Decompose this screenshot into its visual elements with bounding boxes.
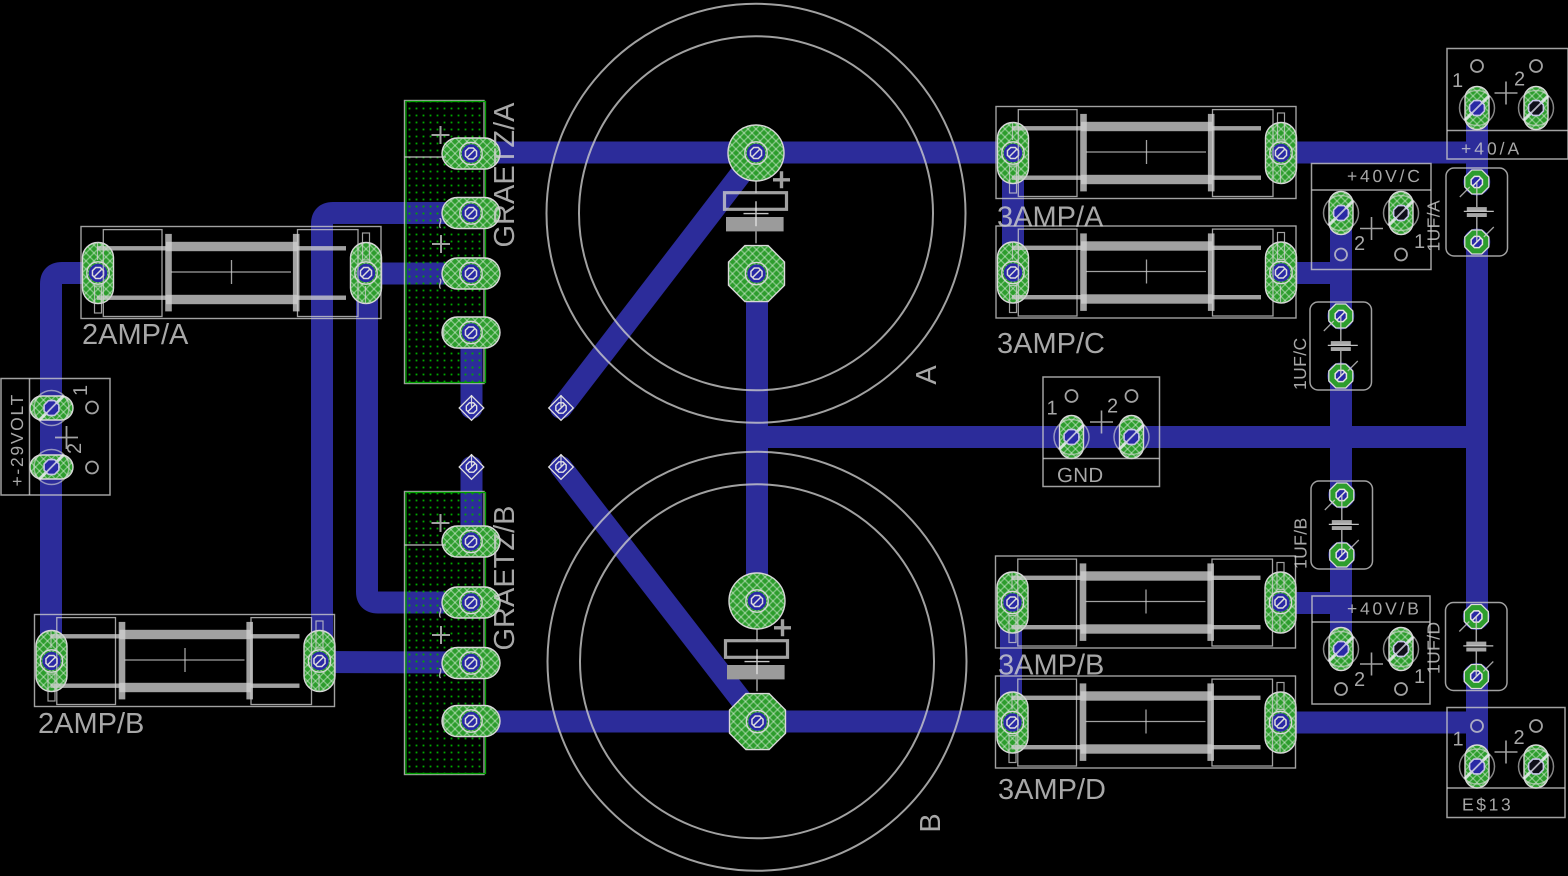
via V4 [549, 454, 574, 479]
svg-text:A: A [911, 365, 943, 385]
wire via V4 to capacitor B- diagonal [561, 467, 757, 721]
wire 1UF/C bottom to GND / 1UF/B top [1330, 376, 1352, 495]
svg-text:2AMP/B: 2AMP/B [38, 708, 144, 740]
connector E$13 [1447, 708, 1565, 818]
wire 1UF/B bottom to +40V/B pad2 [1330, 555, 1352, 649]
capacitor 1UF/A [1424, 168, 1508, 256]
bridge rectifier GRAETZ/B [405, 492, 522, 775]
wire GRAETZ/A pad1 via capacitor A+ to 3AMP/A-left [469, 142, 1013, 164]
wire 3AMP/B-left to 3AMP/D-left [1000, 603, 1022, 723]
svg-text:B: B [915, 813, 947, 832]
capacitor 1UF/D [1424, 603, 1508, 691]
wire GRAETZ/B pad4 via capacitor B- to 3AMP/D-left [469, 711, 1012, 733]
svg-text:1: 1 [1047, 398, 1058, 420]
wire 1UF/A bottom to GND / 1UF/D top [1466, 242, 1488, 617]
fuse 2AMP/B [35, 615, 336, 741]
wire 1UF/D bottom to E$13 pad1 [1466, 677, 1488, 767]
svg-text:1UF/A: 1UF/A [1424, 200, 1444, 252]
wire 3AMP/D-right to E$13 rail [1281, 712, 1477, 734]
svg-text:3AMP/C: 3AMP/C [997, 328, 1105, 360]
svg-text:+-29VOLT: +-29VOLT [7, 393, 27, 487]
electrolytic capacitor C-B [548, 452, 967, 871]
wire GND bus horizontal [757, 426, 1478, 448]
fuse 3AMP/D [996, 676, 1297, 806]
svg-text:2: 2 [1514, 727, 1525, 749]
via V1 [459, 395, 484, 420]
capacitor 1UF/B [1291, 481, 1373, 569]
svg-text:2: 2 [1354, 233, 1365, 255]
wire capacitor A- to capacitor B+ (GND) [746, 274, 768, 602]
svg-text:~: ~ [429, 606, 452, 618]
svg-text:2: 2 [1514, 69, 1525, 91]
wire +40/A pad1 to 1UF/A top [1466, 108, 1488, 182]
fuse 3AMP/C [996, 226, 1297, 360]
wire 3AMP/B-right stub [1281, 592, 1341, 614]
capacitor 1UF/C [1290, 302, 1372, 390]
electrolytic capacitor C-A [547, 4, 966, 423]
fuse 3AMP/B [996, 556, 1297, 682]
svg-text:2: 2 [1354, 669, 1365, 691]
fuse 2AMP/A [81, 227, 382, 352]
bridge rectifier GRAETZ/A [405, 101, 522, 384]
svg-text:+40V/C: +40V/C [1347, 166, 1423, 186]
wire GRAETZ/A pad2 to 2AMP/B-right [322, 213, 469, 661]
wire capacitor A+ to via V3 diagonal [561, 153, 757, 408]
svg-text:3AMP/D: 3AMP/D [998, 774, 1106, 806]
wire 2AMP/A-right / GRAETZ/A pad3 to GRAETZ/B pad2 [367, 274, 469, 603]
svg-text:1: 1 [1453, 729, 1464, 751]
wire 3AMP/A-left to 3AMP/C-left [1002, 153, 1024, 273]
wire 2AMP/B-right to GRAETZ/B pad3 [321, 651, 469, 674]
wire 3AMP/C-right stub [1281, 262, 1341, 284]
svg-text:~: ~ [429, 277, 452, 289]
svg-text:+40V/B: +40V/B [1347, 599, 1422, 619]
wire GRAETZ/A pad4 to via V1 [461, 333, 483, 409]
wire 2AMP/A-left to +-29VOLT to 2AMP/B-left [51, 273, 98, 662]
wire 3AMP/A-right to +40/A rail [1281, 142, 1478, 164]
connector +40V/B [1312, 596, 1430, 704]
fuse 3AMP/A [996, 107, 1297, 234]
connector GND [1043, 377, 1160, 487]
svg-text:GND: GND [1057, 464, 1103, 487]
via V2 [459, 454, 484, 479]
svg-text:E$13: E$13 [1462, 795, 1513, 815]
svg-text:GRAETZ/B: GRAETZ/B [489, 505, 521, 650]
svg-text:+40/A: +40/A [1461, 139, 1522, 159]
connector +40/A [1447, 49, 1568, 160]
svg-text:GRAETZ/A: GRAETZ/A [489, 102, 521, 248]
svg-text:1: 1 [1452, 70, 1463, 92]
connector +40V/C [1312, 164, 1432, 270]
via V3 [549, 395, 574, 420]
svg-text:1UF/B: 1UF/B [1291, 517, 1311, 569]
svg-text:2: 2 [1107, 396, 1118, 418]
wire +40V/C pad2 to 1UF/C top [1330, 213, 1352, 316]
svg-text:1UF/D: 1UF/D [1424, 621, 1444, 674]
svg-text:1: 1 [70, 385, 92, 396]
svg-text:2AMP/A: 2AMP/A [82, 319, 189, 351]
wire via V2 to GRAETZ/B pad1 [461, 467, 483, 542]
svg-text:~: ~ [429, 217, 452, 229]
svg-text:3AMP/B: 3AMP/B [998, 650, 1104, 682]
svg-text:~: ~ [429, 667, 452, 679]
connector +-29VOLT [1, 379, 110, 496]
svg-text:1UF/C: 1UF/C [1290, 337, 1310, 390]
